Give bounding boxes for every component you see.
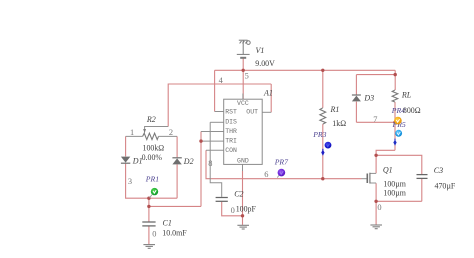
svg-text:0.00%: 0.00% [142,153,163,162]
svg-text:OUT: OUT [246,109,258,116]
svg-text:V1: V1 [256,46,265,55]
svg-text:7: 7 [373,115,377,124]
svg-text:800Ω: 800Ω [403,106,421,115]
svg-text:100µm: 100µm [383,188,406,197]
svg-text:TRI: TRI [225,137,237,144]
svg-text:0: 0 [152,230,156,239]
svg-text:RL: RL [401,91,412,100]
svg-text:0: 0 [377,203,381,212]
svg-text:D2: D2 [183,157,194,166]
svg-text:0: 0 [231,206,235,215]
svg-text:RST: RST [225,109,237,116]
svg-text:GND: GND [237,157,249,164]
svg-text:100pF: 100pF [236,204,257,213]
svg-text:3: 3 [128,177,132,186]
svg-text:PR1: PR1 [145,174,159,183]
svg-text:THR: THR [225,128,237,135]
svg-text:PR7: PR7 [274,158,289,167]
svg-text:5: 5 [245,71,249,80]
svg-text:1: 1 [130,128,134,137]
svg-text:R2: R2 [146,115,156,124]
svg-text:A1: A1 [263,88,273,97]
svg-text:CON: CON [225,147,237,154]
svg-text:6: 6 [264,170,268,179]
svg-text:DIS: DIS [225,118,237,125]
svg-text:C1: C1 [163,218,172,227]
svg-text:10.0mF: 10.0mF [162,228,187,237]
svg-text:PR3: PR3 [312,130,326,139]
svg-text:Q1: Q1 [383,165,393,174]
svg-text:470µF: 470µF [435,181,456,190]
svg-text:8: 8 [208,159,212,168]
svg-text:D3: D3 [363,93,374,102]
svg-text:100µm: 100µm [383,180,406,189]
svg-text:2: 2 [169,128,173,137]
svg-text:VCC: VCC [237,100,249,107]
svg-text:9.00V: 9.00V [255,59,275,68]
svg-text:100kΩ: 100kΩ [143,144,165,153]
svg-text:1kΩ: 1kΩ [332,119,346,128]
svg-text:C3: C3 [434,166,443,175]
svg-text:C2: C2 [234,189,243,198]
svg-text:D1: D1 [132,157,143,166]
svg-text:R1: R1 [330,105,340,114]
